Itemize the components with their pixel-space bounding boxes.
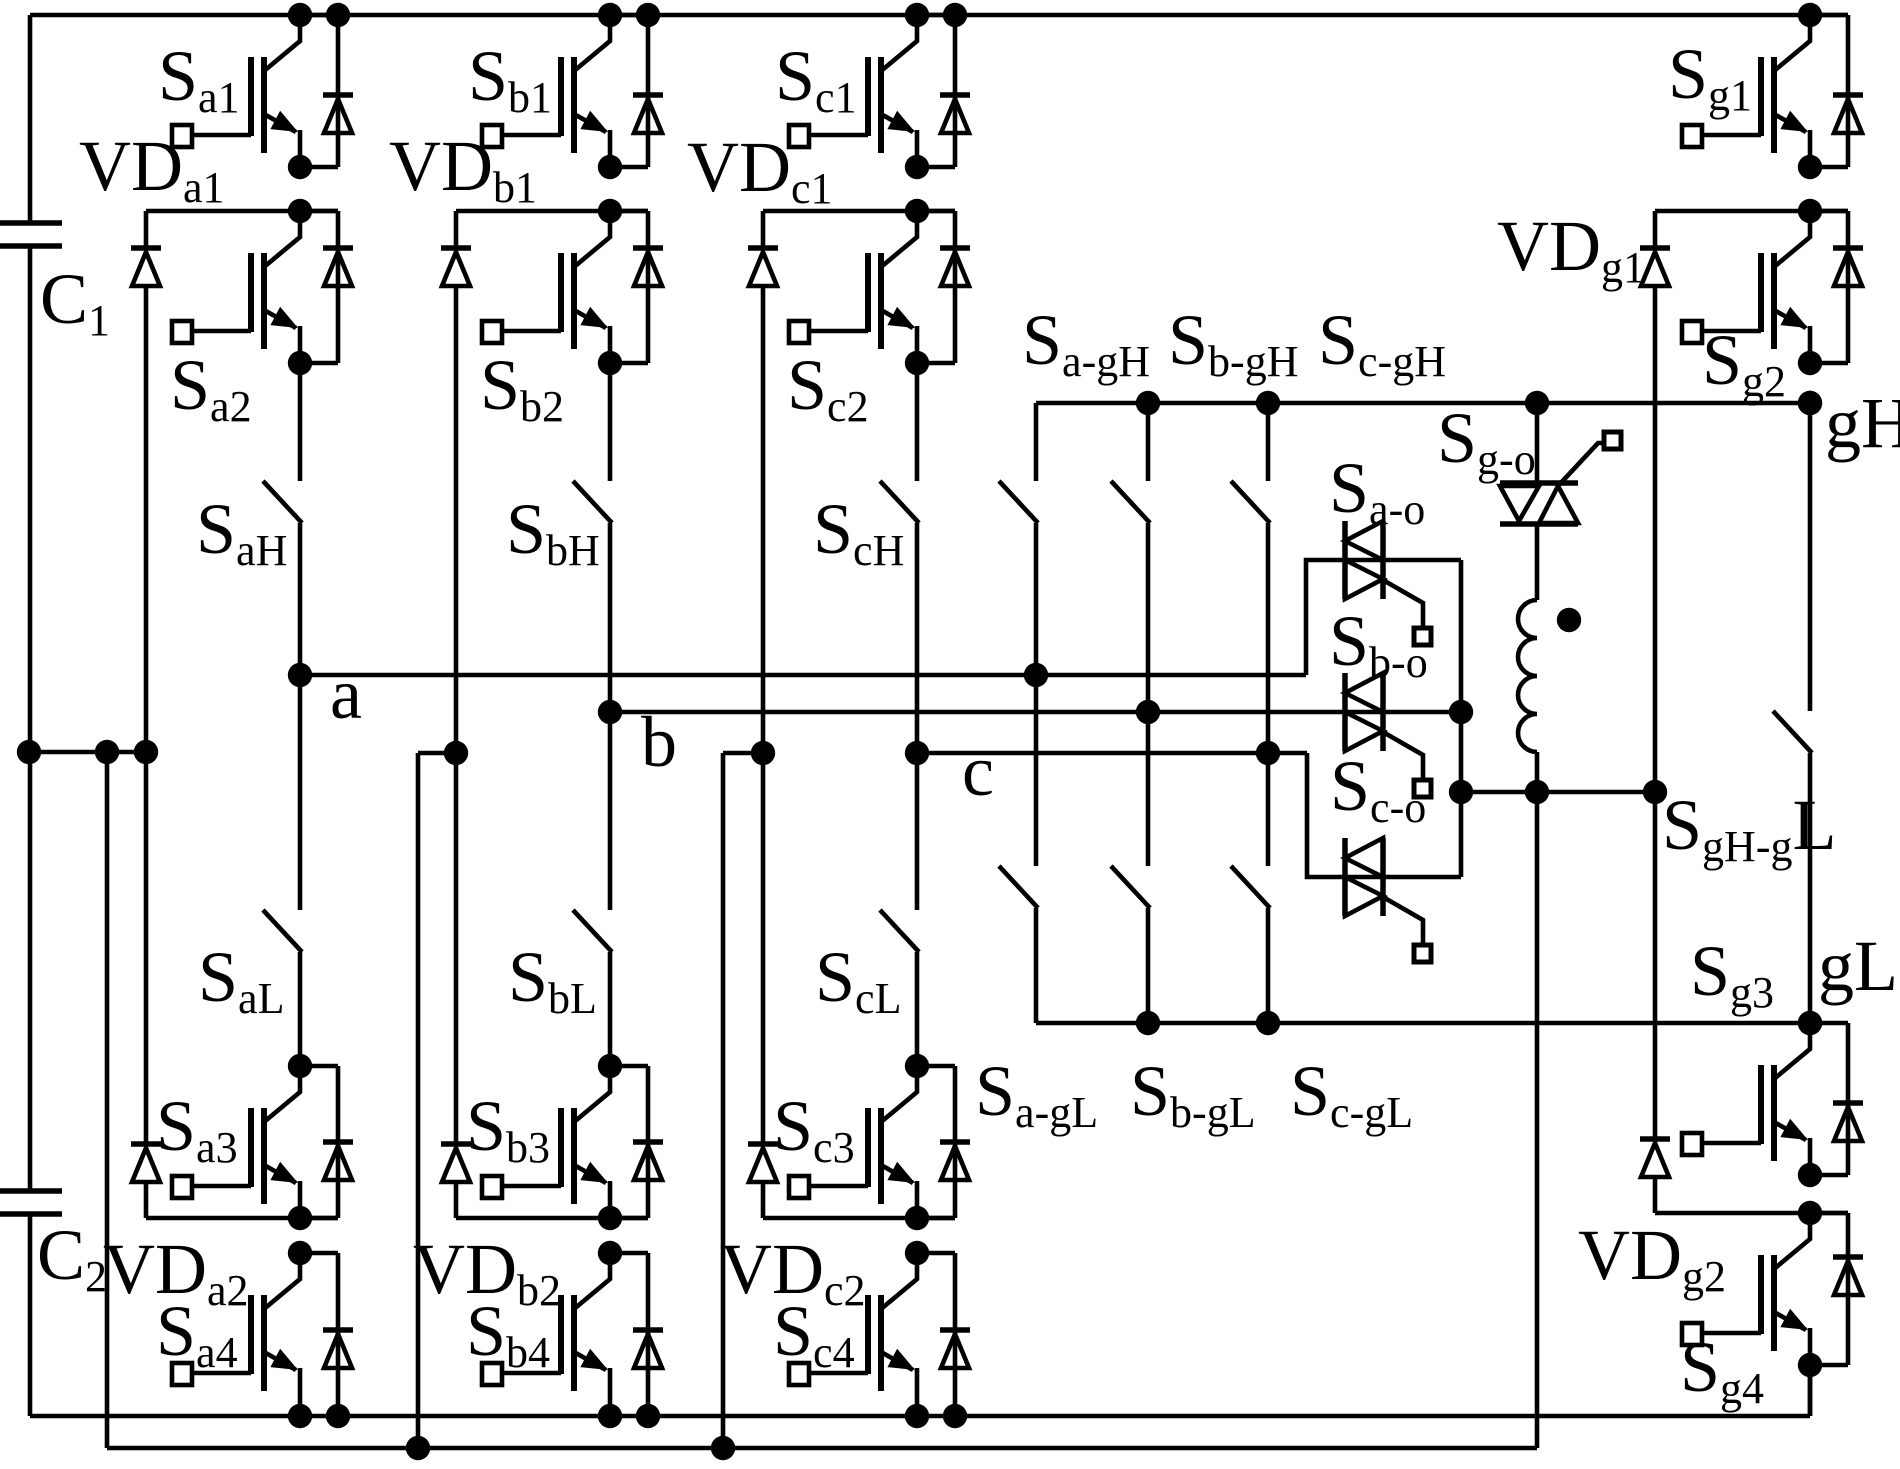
svg-text:SaL: SaL [198, 937, 284, 1023]
svg-text:SaH: SaH [196, 489, 287, 575]
svg-text:Sa-gH: Sa-gH [1022, 300, 1150, 386]
svg-text:Sa2: Sa2 [170, 345, 252, 431]
svg-text:SgH-gL: SgH-gL [1662, 785, 1836, 871]
svg-text:VDa1: VDa1 [79, 126, 225, 212]
svg-text:Sb-gH: Sb-gH [1168, 300, 1298, 386]
svg-text:Sb-gL: Sb-gL [1130, 1051, 1256, 1137]
svg-text:SbL: SbL [508, 937, 597, 1023]
svg-text:c: c [962, 731, 994, 811]
svg-text:Sg3: Sg3 [1690, 931, 1774, 1017]
svg-text:VDg1: VDg1 [1497, 206, 1645, 292]
svg-text:C2: C2 [37, 1215, 107, 1301]
svg-text:C1: C1 [40, 259, 110, 345]
svg-text:Sb-o: Sb-o [1329, 601, 1428, 687]
svg-text:a: a [330, 654, 362, 734]
svg-text:gL: gL [1818, 926, 1898, 1006]
svg-text:Sc-o: Sc-o [1330, 746, 1426, 832]
svg-text:Sc-gH: Sc-gH [1318, 300, 1446, 386]
svg-text:Sa3: Sa3 [156, 1086, 238, 1172]
svg-text:Sg1: Sg1 [1668, 34, 1752, 120]
svg-text:Sc3: Sc3 [773, 1086, 855, 1172]
svg-text:Sa-o: Sa-o [1329, 448, 1425, 534]
svg-text:Sb1: Sb1 [468, 36, 552, 122]
svg-text:Sa-gL: Sa-gL [975, 1051, 1098, 1137]
svg-text:Sa1: Sa1 [158, 36, 240, 122]
svg-text:ScL: ScL [815, 937, 901, 1023]
svg-text:gH: gH [1825, 383, 1900, 463]
svg-text:Sg4: Sg4 [1680, 1327, 1764, 1413]
svg-text:b: b [641, 702, 677, 782]
svg-text:SbH: SbH [506, 489, 600, 575]
svg-text:Sb3: Sb3 [466, 1086, 550, 1172]
svg-text:VDb1: VDb1 [389, 126, 537, 212]
svg-text:ScH: ScH [813, 489, 904, 575]
svg-text:Sg-o: Sg-o [1437, 398, 1536, 484]
svg-text:Sc1: Sc1 [775, 36, 857, 122]
svg-text:Sb2: Sb2 [480, 345, 564, 431]
svg-text:VDg2: VDg2 [1578, 1215, 1726, 1301]
svg-text:Sc-gL: Sc-gL [1290, 1051, 1413, 1137]
svg-text:Sc2: Sc2 [787, 345, 869, 431]
